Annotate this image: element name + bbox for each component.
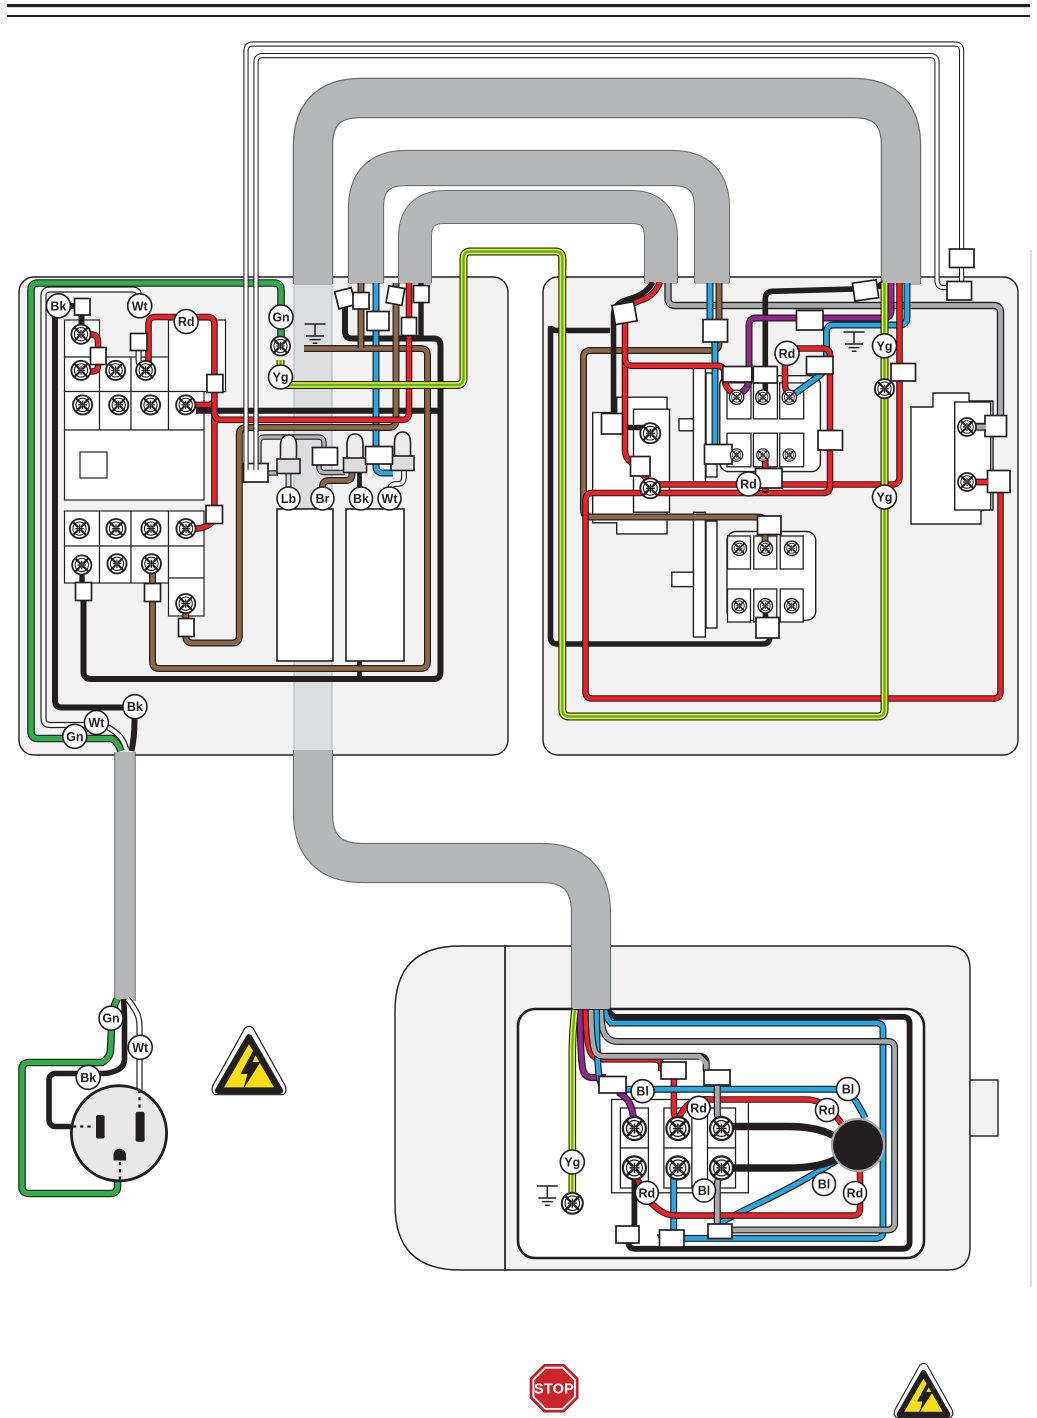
svg-text:Wt: Wt <box>132 1041 149 1055</box>
label Wt exit <box>84 711 108 735</box>
prong dashed line top <box>138 1090 140 1110</box>
screws right box valve <box>640 423 660 498</box>
svg-text:Rd: Rd <box>779 347 796 361</box>
sensor splice right box <box>947 282 972 301</box>
red bus wire (S2c / timer / harness3) <box>149 283 410 529</box>
svg-text:Rd: Rd <box>638 1186 655 1200</box>
main relay block <box>720 376 821 472</box>
red wire harness1 to valve L2 <box>652 283 900 486</box>
harness sweep from left box down to motor junction box <box>313 750 591 1010</box>
svg-text:Bl: Bl <box>818 1178 831 1192</box>
label Bk lamp <box>350 487 373 510</box>
ground screw left box <box>271 336 290 355</box>
label Bk plug <box>76 1065 100 1089</box>
red stub timer R2 <box>974 479 988 486</box>
motor relay mounting plates <box>672 512 717 637</box>
label Bl right <box>837 1078 860 1101</box>
splice connectors left box top <box>75 286 430 524</box>
motor shaft tab <box>970 1080 998 1136</box>
thick black leads screws to hub <box>731 1127 842 1169</box>
black cord wire to plug <box>49 999 125 1127</box>
label Bl bottom mid <box>693 1179 716 1202</box>
gray sensor bus wire <box>668 283 1001 427</box>
terminal block row 3 cells <box>65 392 205 431</box>
label Gn exit <box>63 724 87 748</box>
lamp wire black to Bk <box>357 466 362 679</box>
lamp wire light-blue to Lb <box>286 472 292 545</box>
label Rd bottom right <box>844 1182 867 1205</box>
label Yg right top <box>873 334 897 358</box>
svg-text:Lb: Lb <box>281 492 297 506</box>
svg-text:Rd: Rd <box>690 1101 707 1115</box>
main harness conduit from left box to right box (widest) <box>313 98 901 285</box>
svg-text:Br: Br <box>316 492 330 506</box>
label Wt top <box>128 294 152 318</box>
svg-text:Bk: Bk <box>353 492 369 506</box>
black wire harness1 to relay T2 <box>765 280 886 391</box>
svg-text:Bl: Bl <box>698 1184 711 1198</box>
black hot wire of power cord (plug to terminal) <box>55 306 135 751</box>
label Yg <box>269 365 293 389</box>
svg-text:Gn: Gn <box>66 730 83 744</box>
motor junction box <box>518 1009 924 1258</box>
conduit stub mouths over box edges <box>295 268 920 1009</box>
plug body <box>71 1086 166 1181</box>
plug ground pin <box>114 1149 127 1161</box>
purple wire harness1 to relay T1 <box>739 283 891 394</box>
brown wire S6c to harness (long loop) <box>153 283 428 669</box>
pin dashed line <box>119 1162 121 1180</box>
screws left terminal blocks <box>70 325 196 614</box>
label Yg right lower <box>873 485 897 509</box>
blue wire harness1 to relay T3 <box>795 283 907 394</box>
svg-text:Bk: Bk <box>127 700 143 714</box>
red lead screw2 to hub (top) <box>678 1099 844 1127</box>
label Rd mid <box>687 1096 710 1119</box>
ground screw on Yg wire <box>875 379 894 398</box>
left control panel box <box>19 277 508 755</box>
green ground wire of power cord <box>31 283 281 751</box>
top rule thick <box>7 4 1030 7</box>
power cord conduit to plug <box>114 752 136 1001</box>
label Bk top <box>46 294 70 318</box>
high voltage warning triangle (left) <box>212 1026 286 1094</box>
splice connectors left box bottom <box>76 583 195 637</box>
black wire harness3 to valve <box>614 282 654 428</box>
label Rd right <box>816 1099 839 1122</box>
green cord wire to plug <box>22 999 118 1194</box>
screws motor start relay <box>732 541 799 613</box>
red lead screw4 to hub (bottom) <box>634 1168 860 1216</box>
timer switch body <box>911 393 993 524</box>
high voltage warning triangle (bottom right) <box>894 1363 953 1417</box>
svg-text:Bk: Bk <box>50 299 66 313</box>
black motor lead outer loop <box>609 1010 910 1249</box>
svg-text:Wt: Wt <box>382 492 399 506</box>
terminal block cell S1 <box>65 320 100 357</box>
splice connectors right box <box>602 280 1011 638</box>
brown wire harness2 to start relay <box>584 283 766 548</box>
page margin line <box>1030 250 1032 1287</box>
ground symbol right box <box>844 332 865 351</box>
label Bl bottom right <box>813 1173 836 1196</box>
red wire harness3 to valve and relay T1 <box>625 282 736 487</box>
plug prong left <box>96 1115 105 1139</box>
svg-text:Gn: Gn <box>102 1012 119 1026</box>
cable band through left box (main harness behind panel) <box>294 278 332 754</box>
screws timer <box>958 418 976 491</box>
label Gn plug <box>99 1006 123 1030</box>
gray lamp wires <box>259 437 345 473</box>
blue lead to hub top <box>597 1010 866 1118</box>
screws main relay <box>729 390 796 461</box>
ground screw junction box <box>562 1193 583 1214</box>
heater capacitor rectangle 2 <box>346 509 404 661</box>
splice connectors junction box <box>599 1062 732 1247</box>
plug prong right <box>136 1112 145 1142</box>
label Bl left <box>631 1080 654 1103</box>
svg-text:Yg: Yg <box>877 339 893 353</box>
black bus wire (terminal to harness) <box>82 283 441 679</box>
svg-text:Yg: Yg <box>273 371 289 385</box>
blue motor lead outer loop <box>605 1010 883 1238</box>
blue lead hub to splice (diagonal) <box>720 1155 846 1228</box>
relay mounting plates <box>679 364 717 486</box>
lamp wire brown to Br <box>323 466 353 560</box>
purple lead to screw1 <box>580 1010 634 1122</box>
svg-text:Rd: Rd <box>819 1104 836 1118</box>
label Gn <box>269 305 293 329</box>
label Wt lamp <box>378 487 401 510</box>
label Br <box>311 487 334 510</box>
brown wire aux screw to harness3 <box>186 283 396 643</box>
white sensor wire pair (outer) <box>246 44 962 470</box>
red loop timer R2 to start circuit <box>586 349 1001 699</box>
red stub splice to B1 <box>727 452 735 459</box>
top rule thin <box>7 15 1030 17</box>
heater capacitor rectangle 1 <box>277 509 333 661</box>
white neutral wire of power cord <box>44 290 140 750</box>
gray stub timer R1 <box>974 423 986 430</box>
lamp wire white to Wt <box>390 464 404 560</box>
svg-text:Wt: Wt <box>88 716 105 730</box>
green stub Gn label to ground screw <box>277 326 285 340</box>
white sensor wire pair (inner) <box>256 56 950 470</box>
water valve body <box>593 397 670 534</box>
motor hub (wire junction) <box>832 1119 884 1171</box>
svg-text:Yg: Yg <box>564 1156 580 1170</box>
label Rd lower <box>737 472 761 496</box>
motor start relay block <box>727 532 816 623</box>
blue wire harness2 to start relay B1 <box>710 283 715 448</box>
blue wire harness2 to lamp <box>376 283 393 473</box>
svg-text:Bl: Bl <box>842 1083 855 1097</box>
svg-text:Yg: Yg <box>877 491 893 505</box>
gray lead to screw3 <box>591 1010 721 1122</box>
indicator lamp Br/Bk <box>344 434 367 473</box>
junction screws <box>623 1117 733 1179</box>
stop sign <box>530 1365 578 1413</box>
yellow-green arch between boxes <box>281 252 563 386</box>
label Lb <box>277 487 300 510</box>
gray lead screw6 to splice <box>717 1172 721 1228</box>
harness conduit stub into junction box <box>571 945 611 1011</box>
label Rd relay <box>775 341 799 365</box>
motor body outline <box>395 946 970 1270</box>
svg-text:STOP: STOP <box>534 1382 574 1398</box>
bottom terminal block row 5 <box>65 511 205 546</box>
svg-text:Rd: Rd <box>847 1187 864 1201</box>
white cord wire to plug <box>128 999 140 1090</box>
red jumper S1 to S2a <box>86 335 98 372</box>
right control box <box>543 277 1018 755</box>
yellow-green lead to ground screw <box>572 1010 575 1192</box>
svg-text:Gn: Gn <box>272 311 289 325</box>
yellow-green ground loop <box>562 258 884 717</box>
label Bk exit <box>123 695 147 719</box>
label Yg junction <box>560 1150 584 1174</box>
timer body rectangle <box>65 430 205 500</box>
harness conduit 2 <box>366 168 712 284</box>
indicator lamp Lb <box>277 435 300 474</box>
sensor splice above right box <box>950 249 975 268</box>
ground symbol junction box <box>537 1186 558 1205</box>
svg-text:Wt: Wt <box>132 299 149 313</box>
white stub connector to screw <box>139 348 142 367</box>
aux terminal cell <box>169 578 205 616</box>
label Rd bottom left <box>635 1181 658 1204</box>
gray motor lead big loop <box>601 1010 895 1230</box>
ground symbol left box <box>305 324 326 343</box>
label Wt plug <box>128 1035 152 1059</box>
harness conduit 3 <box>415 207 661 284</box>
svg-text:Rd: Rd <box>178 315 195 329</box>
svg-text:Bl: Bl <box>636 1085 649 1099</box>
label Rd <box>174 310 198 334</box>
bottom terminal block row 6 <box>65 546 205 583</box>
prong dashed line left <box>73 1125 94 1127</box>
black wire bus to start relay <box>551 326 770 644</box>
splice connectors lamp area <box>244 447 393 483</box>
svg-text:Bk: Bk <box>80 1071 96 1085</box>
terminal block row 2 cells <box>65 320 226 392</box>
terminal board <box>612 1100 749 1193</box>
indicator lamp Wt <box>391 432 414 471</box>
svg-text:Rd: Rd <box>740 478 757 492</box>
red lead harness to screw2 <box>586 1010 678 1121</box>
